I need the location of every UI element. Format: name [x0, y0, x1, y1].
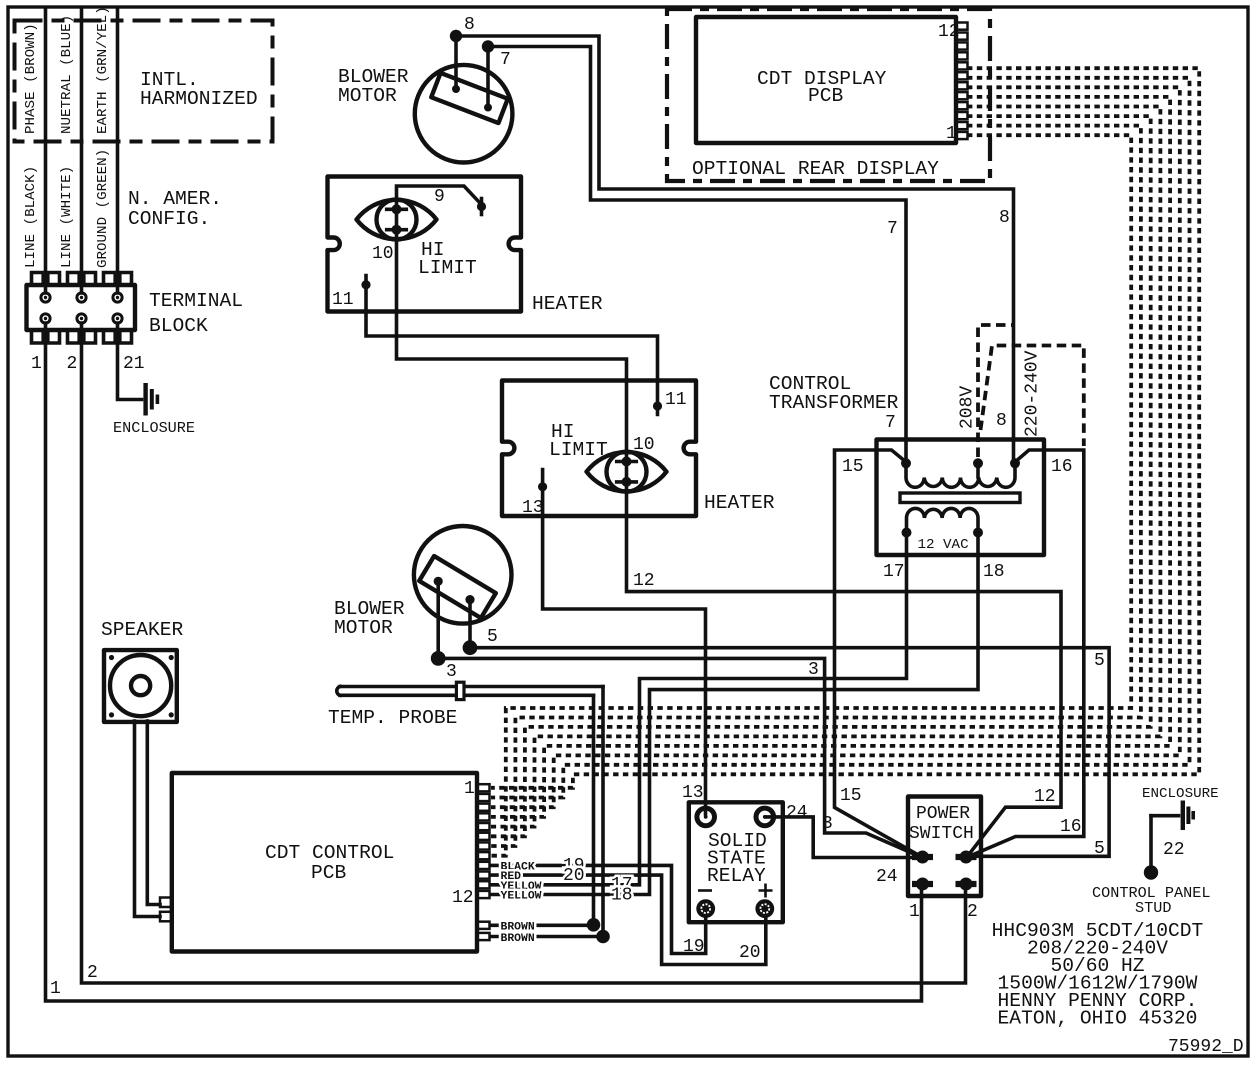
- svg-text:11: 11: [665, 390, 687, 410]
- svg-text:20: 20: [739, 943, 761, 963]
- svg-text:GROUND (GREEN): GROUND (GREEN): [95, 149, 111, 268]
- svg-text:12: 12: [633, 571, 655, 591]
- svg-text:SPEAKER: SPEAKER: [101, 619, 184, 641]
- svg-text:1: 1: [31, 354, 42, 374]
- svg-text:HARMONIZED: HARMONIZED: [140, 88, 258, 110]
- svg-text:8: 8: [996, 411, 1007, 431]
- svg-text:PCB: PCB: [808, 85, 844, 107]
- svg-text:3: 3: [446, 662, 457, 682]
- svg-text:LIMIT: LIMIT: [418, 257, 477, 279]
- svg-text:8: 8: [464, 15, 475, 35]
- svg-text:3: 3: [808, 660, 819, 680]
- svg-text:10: 10: [633, 435, 655, 455]
- svg-text:YELLOW: YELLOW: [501, 891, 542, 903]
- svg-text:TERMINAL: TERMINAL: [149, 290, 243, 312]
- svg-text:10: 10: [372, 244, 394, 264]
- svg-text:NUETRAL (BLUE): NUETRAL (BLUE): [59, 15, 75, 134]
- svg-text:TEMP. PROBE: TEMP. PROBE: [328, 707, 457, 729]
- svg-text:1: 1: [50, 979, 61, 999]
- svg-text:OPTIONAL REAR DISPLAY: OPTIONAL REAR DISPLAY: [692, 158, 939, 180]
- svg-text:19: 19: [683, 937, 705, 957]
- svg-text:75992_D: 75992_D: [1168, 1037, 1244, 1057]
- svg-text:2: 2: [67, 354, 78, 374]
- svg-text:13: 13: [522, 498, 544, 518]
- svg-text:9: 9: [434, 187, 445, 207]
- svg-text:1: 1: [946, 124, 957, 144]
- svg-text:12 VAC: 12 VAC: [918, 537, 969, 553]
- svg-text:SWITCH: SWITCH: [909, 824, 974, 844]
- svg-text:BROWN: BROWN: [501, 922, 535, 934]
- svg-text:1: 1: [464, 779, 475, 799]
- svg-text:LINE (BLACK): LINE (BLACK): [23, 166, 39, 268]
- svg-text:11: 11: [332, 290, 354, 310]
- svg-text:1: 1: [909, 902, 920, 922]
- svg-text:5: 5: [1094, 839, 1105, 859]
- svg-text:24: 24: [876, 867, 898, 887]
- svg-text:7: 7: [885, 413, 896, 433]
- svg-text:16: 16: [1051, 457, 1073, 477]
- svg-text:EATON, OHIO 45320: EATON, OHIO 45320: [998, 1008, 1198, 1030]
- svg-text:7: 7: [887, 219, 898, 239]
- svg-text:ENCLOSURE: ENCLOSURE: [113, 419, 195, 437]
- svg-text:12: 12: [1034, 787, 1056, 807]
- svg-text:7: 7: [500, 50, 511, 70]
- svg-text:5: 5: [487, 627, 498, 647]
- svg-text:21: 21: [123, 354, 145, 374]
- svg-text:PCB: PCB: [311, 862, 347, 884]
- svg-text:17: 17: [883, 562, 905, 582]
- svg-text:ENCLOSURE: ENCLOSURE: [1142, 786, 1219, 802]
- svg-text:12: 12: [938, 22, 960, 42]
- svg-text:N. AMER.: N. AMER.: [128, 188, 222, 210]
- svg-text:18: 18: [983, 562, 1005, 582]
- svg-text:8: 8: [999, 208, 1010, 228]
- svg-text:3: 3: [822, 814, 833, 834]
- svg-text:TRANSFORMER: TRANSFORMER: [769, 392, 899, 414]
- svg-text:13: 13: [682, 783, 704, 803]
- svg-text:BROWN: BROWN: [501, 933, 535, 945]
- svg-text:CONFIG.: CONFIG.: [128, 208, 210, 230]
- svg-text:PHASE (BROWN): PHASE (BROWN): [23, 23, 39, 134]
- svg-text:15: 15: [842, 457, 864, 477]
- svg-text:MOTOR: MOTOR: [334, 617, 393, 639]
- svg-text:POWER: POWER: [916, 804, 970, 824]
- svg-text:22: 22: [1163, 840, 1185, 860]
- svg-text:12: 12: [452, 888, 474, 908]
- svg-text:2: 2: [967, 902, 978, 922]
- svg-text:HEATER: HEATER: [704, 492, 775, 514]
- svg-text:5: 5: [1094, 651, 1105, 671]
- svg-text:16: 16: [1060, 817, 1082, 837]
- svg-text:2: 2: [87, 963, 98, 983]
- svg-text:RELAY: RELAY: [707, 865, 766, 887]
- svg-text:LIMIT: LIMIT: [549, 439, 608, 461]
- svg-text:MOTOR: MOTOR: [338, 85, 397, 107]
- svg-text:20: 20: [563, 866, 585, 886]
- svg-text:CDT CONTROL: CDT CONTROL: [265, 842, 394, 864]
- svg-text:18: 18: [611, 885, 633, 905]
- svg-text:LINE (WHITE): LINE (WHITE): [59, 166, 75, 268]
- svg-text:208V: 208V: [958, 386, 978, 429]
- svg-text:220-240V: 220-240V: [1023, 350, 1043, 437]
- svg-text:24: 24: [786, 803, 808, 823]
- svg-text:15: 15: [840, 786, 862, 806]
- svg-text:HEATER: HEATER: [532, 293, 603, 315]
- svg-text:BLOCK: BLOCK: [149, 315, 208, 337]
- svg-text:EARTH (GRN/YEL): EARTH (GRN/YEL): [95, 6, 111, 134]
- svg-text:STUD: STUD: [1135, 899, 1171, 917]
